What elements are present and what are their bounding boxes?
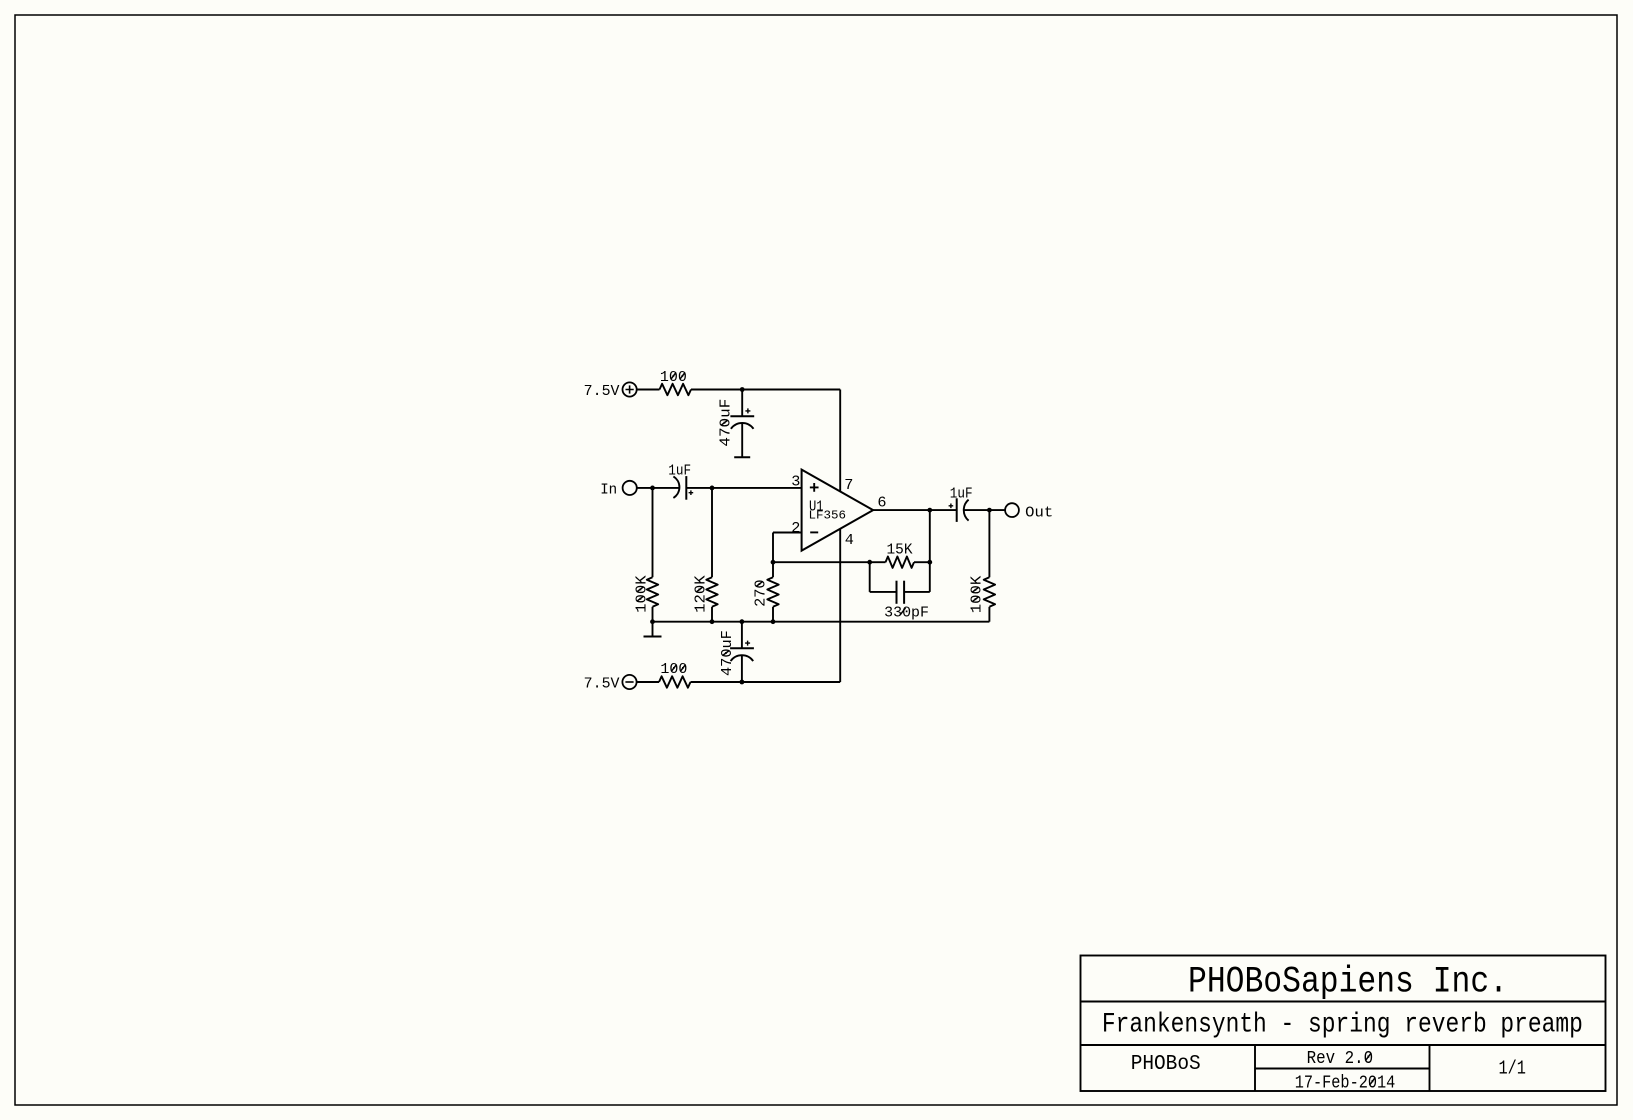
svg-text:LF356: LF356 xyxy=(809,509,847,523)
svg-text:470uF: 470uF xyxy=(720,630,736,676)
resistor R3 120K xyxy=(694,488,718,622)
junction C1 / R3 node xyxy=(710,486,715,491)
svg-text:1uF: 1uF xyxy=(668,463,691,479)
wire V+ rail to pin 7 drop xyxy=(691,389,840,391)
junction C5 / R6 xyxy=(987,508,992,513)
capacitor C2 470uF (V+ decoupling) xyxy=(719,390,755,458)
svg-text:Rev 2.0: Rev 2.0 xyxy=(1307,1049,1374,1069)
junction output node xyxy=(927,508,932,513)
ground xyxy=(644,622,662,637)
svg-text:PHOBoS: PHOBoS xyxy=(1131,1053,1201,1076)
svg-text:PHOBoSapiens Inc.: PHOBoSapiens Inc. xyxy=(1188,962,1508,1004)
svg-text:17-Feb-2014: 17-Feb-2014 xyxy=(1295,1073,1396,1093)
wire output node down to feedback xyxy=(929,510,931,562)
wire feedback node to R5/C4 xyxy=(773,561,870,563)
title revision xyxy=(1307,1049,1374,1069)
svg-text:100: 100 xyxy=(660,662,687,678)
op-amp U1 LF356 xyxy=(802,470,874,551)
svg-text:1/1: 1/1 xyxy=(1498,1057,1526,1079)
svg-text:1uF: 1uF xyxy=(950,486,973,502)
wire V- rail to pin 4 drop xyxy=(691,681,841,683)
junction rail / R3 xyxy=(710,619,715,624)
junction rail / C3 xyxy=(740,619,745,624)
junction In node / R2 xyxy=(650,486,655,491)
svg-text:6: 6 xyxy=(877,493,886,511)
svg-text:Frankensynth - spring reverb p: Frankensynth - spring reverb preamp xyxy=(1102,1009,1583,1040)
resistor R2 100K (input bias) xyxy=(634,488,658,622)
wire C1 to pin 3 xyxy=(686,487,801,489)
svg-text:Out: Out xyxy=(1025,505,1053,521)
input terminal In xyxy=(600,481,637,499)
svg-text:7.5V: 7.5V xyxy=(584,384,620,400)
wire C5 to Out xyxy=(964,509,1005,511)
svg-text:120K: 120K xyxy=(694,575,710,613)
svg-text:2: 2 xyxy=(791,519,800,537)
ground rail xyxy=(653,621,990,623)
svg-text:100: 100 xyxy=(660,370,687,386)
junction feedback node xyxy=(771,560,776,565)
junction R5 right / C4 xyxy=(927,560,932,565)
power -7.5V terminal xyxy=(584,675,637,693)
svg-text:270: 270 xyxy=(754,579,770,607)
junction rail / R2 / ground xyxy=(650,619,655,624)
resistor R7 100 (V- filter) xyxy=(659,662,691,688)
capacitor C3 470uF (V- decoupling) xyxy=(720,622,754,682)
capacitor C5 1uF (output coupling) xyxy=(949,486,973,522)
resistor R4 270 xyxy=(754,562,779,622)
title block xyxy=(1081,956,1606,1092)
ground bar below C2 xyxy=(734,456,750,458)
svg-text:100K: 100K xyxy=(970,576,986,614)
svg-text:4: 4 xyxy=(845,531,854,549)
junction V- rail / C3 xyxy=(740,680,745,685)
resistor R1 100 (V+ filter) xyxy=(660,370,692,395)
output terminal Out xyxy=(1005,503,1053,521)
wire pin 7 to V+ rail xyxy=(839,390,841,492)
svg-text:15K: 15K xyxy=(887,542,913,558)
wire pin 4 to V- rail xyxy=(839,529,841,682)
wire V+ to R1 xyxy=(637,389,660,391)
resistor R5 15K (feedback) xyxy=(870,542,930,568)
svg-text:330pF: 330pF xyxy=(884,605,929,621)
svg-text:3: 3 xyxy=(791,473,800,491)
wire V- to R7 xyxy=(637,681,659,683)
junction V+ rail / C2 xyxy=(740,387,745,392)
wire pin 6 output xyxy=(873,509,957,511)
svg-text:7.5V: 7.5V xyxy=(584,677,620,693)
svg-text:7: 7 xyxy=(844,476,853,494)
wire In to C1 xyxy=(637,487,680,489)
resistor R6 100K (output load) xyxy=(970,510,996,622)
svg-text:In: In xyxy=(600,483,617,499)
capacitor C1 1uF (input coupling) xyxy=(668,463,693,499)
junction R5 left / C4 xyxy=(867,560,872,565)
power +7.5V terminal xyxy=(584,382,637,400)
capacitor C4 330pF (feedback) xyxy=(870,562,930,621)
junction rail / R4 xyxy=(771,619,776,624)
svg-text:470uF: 470uF xyxy=(719,399,735,447)
wire pin 2 to feedback node xyxy=(773,533,802,563)
title date xyxy=(1295,1073,1396,1093)
svg-text:100K: 100K xyxy=(634,575,650,613)
